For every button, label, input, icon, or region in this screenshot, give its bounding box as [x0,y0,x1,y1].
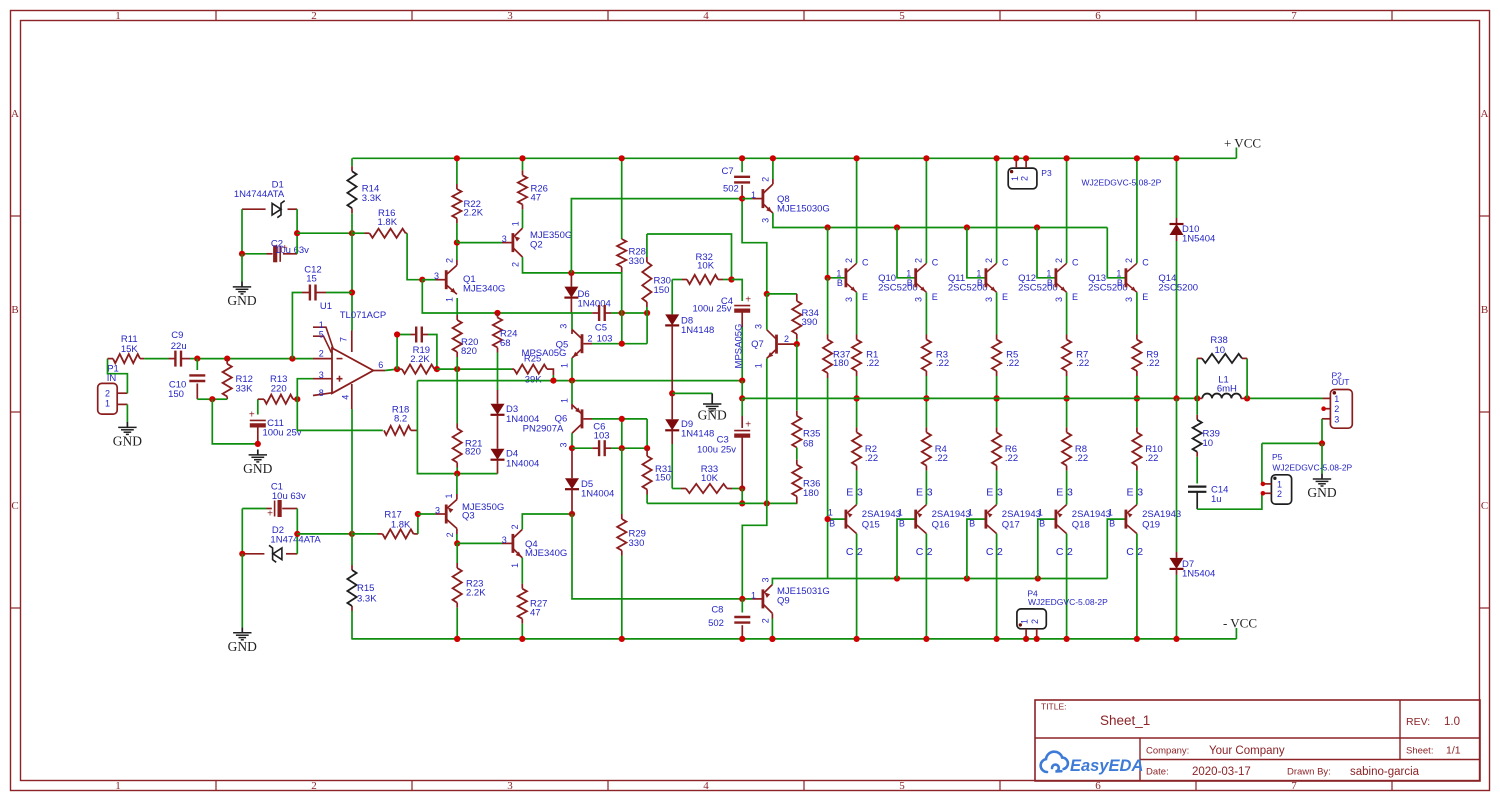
svg-text:2.2K: 2.2K [464,208,484,219]
svg-text:GND: GND [243,461,272,476]
node Q5 base [619,341,625,347]
svg-text:E: E [986,486,993,498]
svg-text:1.8K: 1.8K [391,519,411,530]
ground under C11 [257,450,259,455]
svg-text:WJ2EDGVC-5.08-2P: WJ2EDGVC-5.08-2P [1272,462,1352,472]
node R14 junction [349,230,355,236]
wire Q13 collector to rail [1066,158,1068,263]
svg-text:47: 47 [531,193,542,204]
node R1 output bus [854,395,860,401]
svg-text:10: 10 [1215,345,1226,356]
svg-text:Q2: Q2 [530,239,543,250]
ground near P2 [1321,474,1323,479]
wire to R34 [767,293,797,295]
svg-text:E: E [1126,486,1133,498]
svg-text:1N4004: 1N4004 [581,488,614,499]
capacitor C13 feedback [397,335,410,370]
svg-text:MJE15030G: MJE15030G [777,204,830,215]
node R15 junction [349,531,355,537]
wire Q15 collector to rail [856,534,858,639]
svg-text:2: 2 [311,10,317,22]
node C8 bottom rail [739,636,745,642]
wire zener tap to R14 junction [297,232,352,234]
svg-text:3: 3 [507,780,513,792]
node R4 output bus [923,395,929,401]
svg-text:1.0: 1.0 [1444,716,1460,728]
svg-text:B: B [1039,518,1045,528]
node D10 rail [1173,155,1179,161]
resistor R19 [397,368,402,370]
node Q10 collector rail [854,155,860,161]
node R33 right [739,485,745,491]
wires top bus to bases [897,228,916,278]
resistor R39 [1196,398,1198,414]
svg-text:1N4148: 1N4148 [681,325,714,336]
svg-text:100u 25v: 100u 25v [697,445,736,456]
wire R33 node down to 503 line [741,489,743,504]
node C7 top rail [739,155,745,161]
svg-text:1: 1 [510,563,520,568]
svg-text:2: 2 [1067,546,1073,558]
wire P2 pin3 to gnd net [1262,419,1322,444]
svg-text:- VCC: - VCC [1223,616,1257,631]
resistor R22 [456,158,458,184]
resistor R20 [456,298,458,315]
node C11 bottom [255,441,261,447]
wire Q9 emitter bus [772,579,1107,585]
svg-text:4: 4 [703,780,709,792]
svg-text:150: 150 [655,472,671,483]
svg-text:2SA1943: 2SA1943 [932,509,971,520]
node C6 line R31 [644,445,650,451]
transistor Q2 MJE350G [502,242,513,244]
resistor R16 [352,232,365,234]
svg-text:3: 3 [1067,486,1073,498]
svg-text:E: E [846,486,853,498]
svg-text:1: 1 [1010,176,1020,181]
wire Q2 base [457,242,502,244]
svg-text:2SC5200: 2SC5200 [1158,283,1198,294]
svg-text:C: C [11,500,18,512]
wire R18 right down to D4 line [417,430,497,473]
wire R16 to Q1 base [407,233,422,280]
svg-text:2SA1943: 2SA1943 [862,509,901,520]
svg-text:TL071ACP: TL071ACP [340,310,386,321]
diode D3 1N4004 [497,390,499,404]
node 399 [209,396,215,402]
svg-text:103: 103 [597,333,613,344]
input net wire C9 to op-amp pin2 [190,358,313,360]
svg-text:1N4148: 1N4148 [681,429,714,440]
svg-text:A: A [11,108,19,120]
transistor Q11 2SC5200 [914,268,917,287]
wire P1 pin2 to R11 [108,359,128,394]
diode D8 1N4148 [665,314,679,325]
node lower zener tap [294,531,300,537]
svg-text:330: 330 [629,538,645,549]
svg-text:6: 6 [378,360,383,370]
node output bus left [739,395,745,401]
svg-text:1: 1 [751,590,756,600]
wire R32 left to D8 [671,280,673,315]
wire R32 to C4 [732,280,743,302]
resistor R4 0.22 [925,398,927,427]
svg-text:.22: .22 [935,453,948,464]
wire Q8 base to Q7 collector [742,199,767,294]
node R2 output bus [854,395,860,401]
svg-text:3: 3 [914,297,924,302]
svg-text:C7: C7 [722,166,734,177]
svg-text:C: C [1126,546,1134,558]
resistor R35 [796,344,798,411]
node Q7 base R34 [794,341,800,347]
node R26 top rail [519,155,525,161]
node Q7 collector [764,291,770,297]
resistor R26 [522,158,524,170]
wire Q9 collector to rail [771,613,773,618]
svg-text:B: B [1117,278,1123,288]
ground under C2 [241,282,243,287]
transistor Q3 MJE350G [418,513,436,515]
capacitor C8 [741,599,743,613]
svg-text:.22: .22 [1005,453,1018,464]
svg-text:EasyEDA: EasyEDA [1070,757,1143,775]
wire R11 to C9 [144,358,168,360]
svg-text:Q18: Q18 [1072,520,1090,531]
resistor R6 0.22 [996,398,998,427]
node R6 output bus [994,395,1000,401]
node R9 output bus [1134,395,1140,401]
node Q19 collector rail [1134,636,1140,642]
svg-text:1N5404: 1N5404 [1182,233,1215,244]
wire Q2 emitter to D6 [523,257,622,273]
node Q13 collector rail [1064,155,1070,161]
svg-text:10u 63v: 10u 63v [272,491,306,502]
svg-text:1: 1 [898,508,903,518]
node L1 left [1194,395,1200,401]
node C2 left [239,251,245,257]
wire Q12 collector to rail [996,158,998,263]
R28 wire from rail [621,158,623,239]
wire down to C11 net [212,399,257,444]
transistor Q4 MJE340G [502,542,513,544]
wire P1 pin1 to ground [126,404,128,422]
svg-text:3: 3 [558,324,568,329]
svg-text:820: 820 [461,346,477,357]
node Q10 base [825,275,831,281]
svg-text:1N4004: 1N4004 [506,459,539,470]
svg-text:2: 2 [105,389,110,399]
capacitor C10 [196,359,198,370]
node D8 bottom [669,390,675,396]
node Q17 collector rail [994,636,1000,642]
wire R13 node to op-amp pin3 [297,379,313,400]
svg-text:B: B [899,518,905,528]
svg-text:3: 3 [760,218,770,223]
svg-text:100u 25v: 100u 25v [262,428,301,439]
transistor Q14 2SC5200 [1125,268,1128,287]
transistor Q7 MPSA05G mirrored [766,294,768,330]
svg-text:390: 390 [802,317,818,328]
svg-text:2: 2 [1030,619,1040,624]
svg-text:10: 10 [1203,438,1214,449]
node output [394,366,400,372]
svg-text:.22: .22 [1145,453,1158,464]
inductor L1 [1202,394,1241,399]
svg-text:1: 1 [510,221,520,226]
resistor R8 0.22 [1066,398,1068,427]
node Q5 emitter [569,378,575,384]
svg-text:C: C [932,258,939,268]
svg-text:2: 2 [1020,176,1030,181]
svg-text:47: 47 [530,608,541,619]
svg-text:3: 3 [753,324,763,329]
svg-text:3.3K: 3.3K [357,593,377,604]
C6 line wire [572,447,592,449]
resistor R5 0.22 [996,292,998,334]
C5 line wire [571,312,592,314]
svg-text:5: 5 [899,780,905,792]
svg-text:P3: P3 [1041,168,1052,178]
node R28 rail [619,155,625,161]
svg-text:103: 103 [594,430,610,441]
resistor R9 0.22 [1136,292,1138,334]
wire output line to R25 [437,368,512,370]
wire R18 right up to mid bus [416,381,418,431]
wire Q8 drive line [571,199,742,273]
svg-text:MPSA05G: MPSA05G [734,324,745,369]
resistor R3 0.22 [925,292,927,334]
wire C10 bottom [197,398,212,400]
svg-text:E: E [1056,486,1063,498]
resistor R10 0.22 [1136,398,1138,427]
resistor R15 [351,534,353,565]
node Q1 collector / Q2 base [454,240,460,246]
svg-text:1: 1 [115,780,121,792]
svg-text:502: 502 [708,618,724,629]
connector P2 [1330,390,1352,429]
resistor R29 [621,448,623,514]
svg-text:2: 2 [1124,258,1134,263]
node Q18 collector rail [1064,636,1070,642]
mid bus wire (driver emitter bus) [417,380,742,382]
transistor Q8 MJE15030G [742,198,752,200]
node D5 bottom [569,511,575,517]
svg-text:OUT: OUT [1332,377,1350,387]
svg-text:1N4744ATA: 1N4744ATA [234,189,285,200]
resistor R27 [521,558,523,584]
node C12 junction [289,356,295,362]
svg-text:E: E [932,292,938,302]
svg-text:3: 3 [435,506,440,516]
transistor Q5 MPSA05G mirrored [571,313,573,330]
svg-text:1: 1 [444,297,454,302]
svg-text:MJE340G: MJE340G [525,548,567,559]
svg-text:68: 68 [500,338,511,349]
svg-text:5: 5 [899,10,905,22]
svg-text:Q15: Q15 [862,520,880,531]
node Q12 collector rail [994,155,1000,161]
node C13 right [434,366,440,372]
svg-text:180: 180 [803,488,819,499]
node Q6 base [619,416,625,422]
resistor R11 [108,358,114,360]
svg-text:GND: GND [698,407,727,422]
wire to ground [241,254,243,282]
svg-text:+: + [249,410,255,421]
node bottom rail junctions [454,636,460,642]
capacitor C9 [174,351,176,367]
node R25 tap [550,378,556,384]
svg-text:B: B [977,278,983,288]
svg-text:Q17: Q17 [1002,520,1020,531]
svg-text:3: 3 [997,486,1003,498]
wire D1-C2 right leg [296,209,298,254]
+VCC top rail wire [352,157,1236,159]
wire Q18 collector to rail [1066,534,1068,639]
transistor Q12 2SC5200 [985,268,988,287]
svg-text:33K: 33K [236,383,254,394]
node R8 output bus [1064,395,1070,401]
svg-text:3: 3 [1334,414,1339,424]
capacitor C1 [242,508,266,510]
wire Q6 collector [571,433,573,448]
wire Q10 collector to rail [856,158,858,263]
diode D10 1N5404 [1176,158,1178,218]
wire tap to R15 junction [297,533,352,535]
svg-text:1: 1 [444,493,454,498]
svg-text:2: 2 [844,258,854,263]
wire R13 node down to R18 [297,399,383,430]
svg-text:2SA1943: 2SA1943 [1002,509,1041,520]
capacitor C3 [741,398,743,416]
node C5 line R28 [619,310,625,316]
node Q8 emitter bus junctions [825,224,831,230]
node C5 line R30 [644,310,650,316]
capacitor C2 [242,253,267,255]
svg-text:Date:: Date: [1146,767,1169,778]
transistor Q9 MJE15031G [742,598,752,600]
svg-text:B: B [907,278,913,288]
svg-text:7: 7 [1291,10,1297,22]
svg-text:3: 3 [1124,297,1134,302]
node C6 line Q6 [569,445,575,451]
wire R30 top line [647,234,732,280]
svg-text:2: 2 [927,546,933,558]
resistor R38 [1196,358,1198,398]
svg-text:1.8K: 1.8K [378,217,398,228]
node 503 line C3 [739,500,745,506]
node L1 right [1244,395,1250,401]
svg-text:GND: GND [1307,485,1336,500]
svg-text:68: 68 [803,438,814,449]
node Q9 collector rail [769,636,775,642]
svg-text:Q9: Q9 [777,596,790,607]
node Q15 collector rail [854,636,860,642]
svg-text:PN2907A: PN2907A [523,423,564,434]
svg-text:3: 3 [927,486,933,498]
svg-text:1: 1 [828,508,833,518]
node Q9 emitter bus junctions [894,575,900,581]
capacitor C12 [292,293,302,359]
svg-text:502: 502 [723,184,739,195]
svg-text:330: 330 [629,256,645,267]
svg-text:2: 2 [1334,404,1339,414]
svg-text:4: 4 [341,395,351,400]
Q5 base wires [584,343,593,345]
svg-text:+ VCC: + VCC [1224,136,1261,151]
svg-text:2SA1943: 2SA1943 [1072,509,1111,520]
resistor R23 [456,543,458,563]
svg-text:7: 7 [339,337,349,342]
svg-text:E: E [862,292,868,302]
svg-text:8: 8 [319,388,324,398]
svg-text:E: E [1072,292,1078,302]
node R22 top rail [454,155,460,161]
svg-text:150: 150 [168,389,184,400]
node Q14 collector rail [1134,155,1140,161]
node Q9 base [739,596,745,602]
svg-text:WJ2EDGVC-5.08-2P: WJ2EDGVC-5.08-2P [1028,597,1108,607]
wire Q3 emitter to Q4 base [456,529,458,535]
svg-text:10u 63v: 10u 63v [275,245,309,256]
svg-text:.22: .22 [1146,358,1159,369]
svg-text:.22: .22 [1006,358,1019,369]
capacitor C11 [257,399,259,414]
svg-text:2: 2 [1054,258,1064,263]
svg-text:C: C [1142,258,1149,268]
svg-text:15K: 15K [121,344,139,355]
svg-text:3: 3 [502,535,507,545]
svg-text:B: B [1109,518,1115,528]
transistor Q15 2SA1943 [845,510,848,529]
resistor R2 0.22 [856,398,858,427]
svg-text:2: 2 [984,258,994,263]
svg-text:C: C [1056,546,1064,558]
wire Q4 collector to D5 line [522,514,572,529]
transistor Q16 2SA1943 [914,510,917,529]
svg-text:C: C [1481,500,1488,512]
svg-text:1N5404: 1N5404 [1182,568,1215,579]
svg-text:3: 3 [319,370,324,380]
svg-text:4: 4 [703,10,709,22]
node D2 left [239,551,245,557]
svg-text:3: 3 [558,442,568,447]
svg-text:820: 820 [465,447,481,458]
wire Q8 emitter bus [773,213,1107,227]
svg-text:1: 1 [751,190,756,200]
resistor R1 0.22 [856,292,858,334]
node R24 top [494,310,500,316]
svg-text:2: 2 [319,349,324,359]
svg-text:GND: GND [228,639,257,654]
svg-text:1: 1 [1038,508,1043,518]
resistor R12 [226,359,228,364]
svg-text:10K: 10K [701,473,719,484]
svg-text:C: C [986,546,994,558]
node R20 bottom [454,366,460,372]
svg-text:.22: .22 [936,358,949,369]
wire Q7 node jog to Q9 base [742,503,767,599]
svg-text:2: 2 [311,780,317,792]
connector P1 [98,383,118,414]
svg-text:WJ2EDGVC-5.08-2P: WJ2EDGVC-5.08-2P [1082,178,1162,188]
svg-text:Company:: Company: [1146,746,1189,757]
svg-text:150: 150 [654,285,670,296]
svg-text:1: 1 [1277,479,1282,489]
503 line wire [647,502,797,504]
node C12 right [349,289,355,295]
